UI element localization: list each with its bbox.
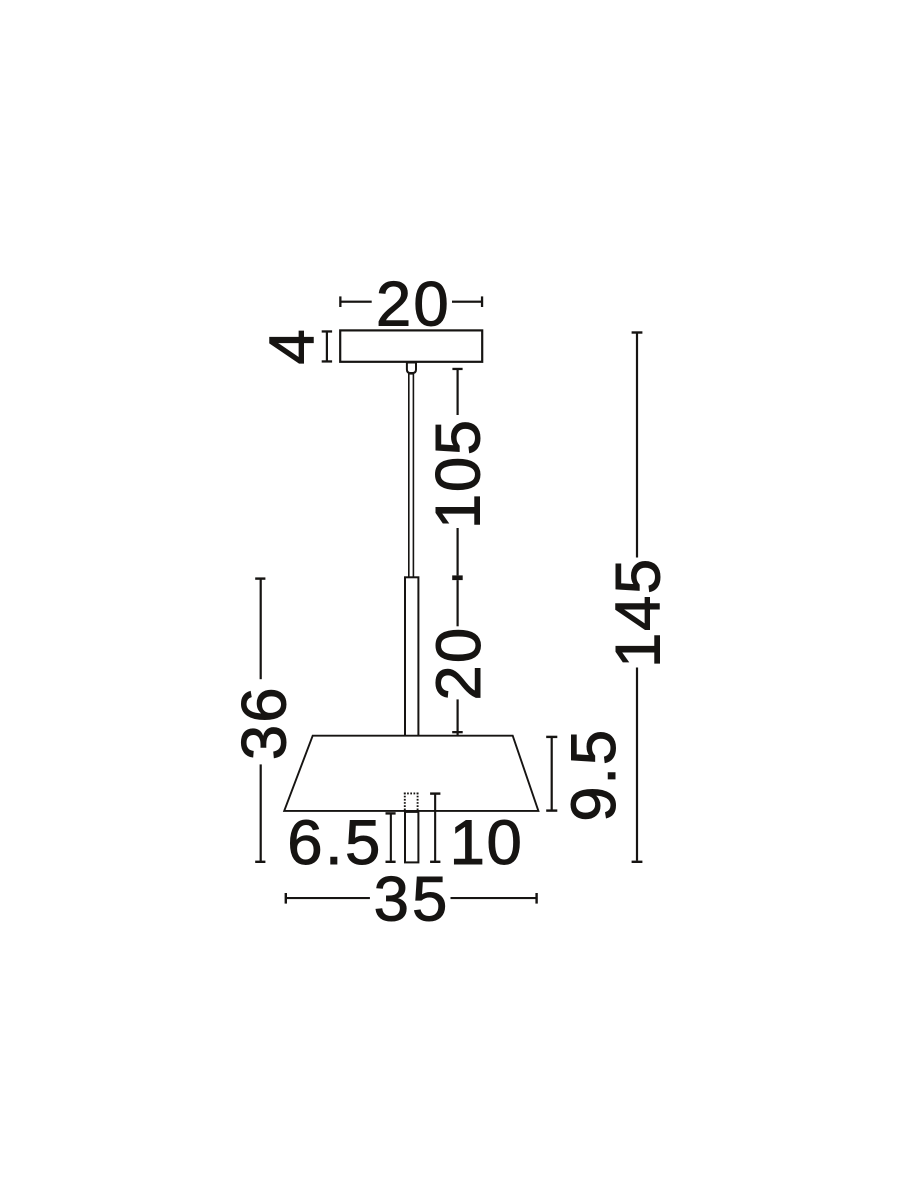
- dim 35 left tick: [285, 893, 287, 904]
- svg-text:4: 4: [257, 329, 327, 364]
- dim 36 bottom tick: [255, 861, 265, 863]
- dim 6.5 top tick: [386, 812, 396, 814]
- hidden rod dotted right edge: [417, 793, 419, 811]
- stem rod lower visible part below shade: [405, 812, 418, 863]
- dim 9.5 top tick: [546, 736, 557, 738]
- dim 145 top tick: [632, 331, 643, 333]
- dim 20 line left segment: [340, 301, 371, 303]
- svg-text:145: 145: [603, 557, 673, 668]
- dim 9.5 line: [551, 737, 553, 811]
- dim 6.5 bottom tick: [386, 861, 396, 863]
- cable connector below canopy: [407, 363, 416, 374]
- dim 35 right tick: [535, 893, 537, 904]
- dim 10 bottom tick: [430, 861, 440, 863]
- dim 20 rod line upper segment: [457, 580, 459, 626]
- dim 105 line upper segment: [457, 369, 459, 415]
- dim 145 bottom tick: [632, 861, 643, 863]
- dim 145 line upper segment: [636, 333, 638, 558]
- dim 20 line right segment: [452, 301, 482, 303]
- svg-text:35: 35: [374, 864, 451, 934]
- dim 9.5 bottom tick: [546, 809, 557, 811]
- dim 105 top tick: [452, 368, 462, 370]
- dim 36 line lower segment: [260, 764, 262, 861]
- svg-text:9.5: 9.5: [559, 728, 629, 822]
- suspension cable: [409, 374, 414, 578]
- dim 36 line upper segment: [260, 579, 262, 680]
- dim 6.5 line: [390, 813, 392, 861]
- dim 10 line: [434, 794, 436, 861]
- svg-text:105: 105: [423, 418, 493, 529]
- lamp shade (trapezoid): [284, 736, 538, 811]
- dim 105/20 shared middle tick: [452, 575, 463, 580]
- canopy (ceiling plate): [340, 330, 482, 361]
- dim 35 line left segment: [286, 897, 370, 899]
- dim 4 bottom tick: [322, 360, 332, 362]
- hidden rod inside shade: dotted top edge: [404, 792, 419, 794]
- svg-text:6.5: 6.5: [287, 808, 382, 878]
- dim 105 line lower segment: [457, 528, 459, 575]
- dim 4 line: [326, 331, 328, 361]
- svg-text:10: 10: [450, 808, 524, 878]
- dim 10 top tick: [430, 792, 440, 794]
- svg-text:20: 20: [424, 626, 494, 701]
- dim 35 line right segment: [451, 897, 537, 899]
- svg-text:36: 36: [229, 685, 299, 760]
- dim 20 rod line lower segment: [457, 699, 459, 735]
- hidden rod dotted left edge: [404, 793, 406, 811]
- dim 4 top tick: [322, 330, 332, 332]
- dim 36 top tick: [255, 577, 265, 579]
- svg-text:20: 20: [376, 269, 451, 339]
- dim 20 right tick: [481, 296, 483, 307]
- dim 20 left tick: [339, 296, 341, 307]
- stem rod upper visible part: [405, 577, 418, 736]
- dim 145 line lower segment: [636, 668, 638, 861]
- dim 20 rod bottom tick: [452, 731, 463, 733]
